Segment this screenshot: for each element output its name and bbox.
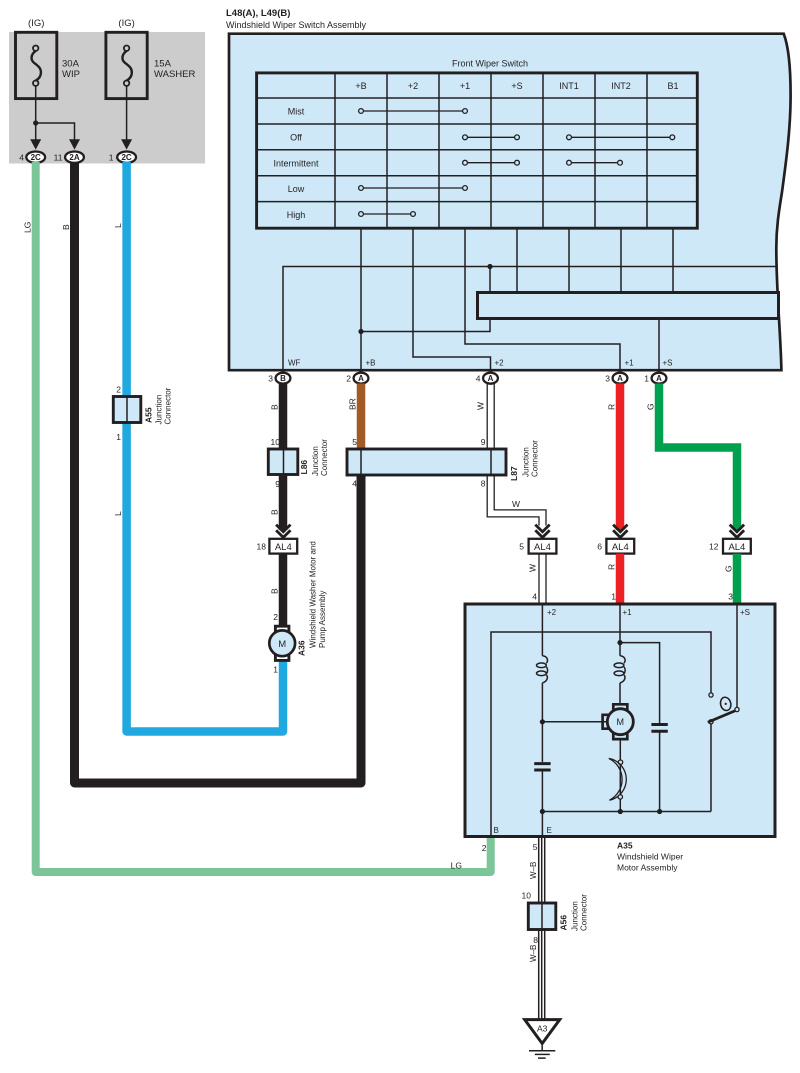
internal wire +1 column to terminal: [465, 229, 620, 370]
svg-text:+S: +S: [740, 608, 750, 617]
svg-text:+S: +S: [663, 359, 673, 368]
commutator contact top: [618, 760, 622, 764]
commutator crescent: [609, 758, 627, 800]
svg-text:Junction: Junction: [522, 447, 531, 477]
svg-text:4: 4: [352, 479, 357, 489]
wire G from AL4 to A35 terminal +S: [733, 554, 742, 604]
wire branch to 2A: [36, 123, 75, 140]
connector oval 2C pin1: [117, 152, 136, 163]
arrow chevrons into AL4 pin18: [276, 525, 290, 538]
link +B node to bus bar bottom: [361, 319, 490, 332]
terminal 2(A) +B: [354, 373, 369, 384]
wire R from terminal 3(A) to AL4 pin6: [616, 384, 625, 531]
internal wire +B column down to terminal: [360, 229, 362, 370]
svg-text:2A: 2A: [69, 153, 79, 162]
svg-text:A: A: [358, 374, 364, 383]
svg-text:1: 1: [644, 374, 649, 384]
A35 terminal labels: [494, 608, 751, 835]
parking switch contact from B: [709, 693, 713, 697]
table column headers: [355, 81, 678, 91]
svg-text:WASHER: WASHER: [154, 69, 195, 80]
wire E terminal: [541, 812, 543, 836]
svg-text:AL4: AL4: [612, 542, 629, 553]
svg-text:Junction: Junction: [311, 446, 320, 476]
svg-text:Pump Assembly: Pump Assembly: [318, 591, 327, 648]
A35 internal wire +S down to switch: [736, 604, 738, 708]
svg-text:BR: BR: [347, 398, 357, 410]
wire G from terminal 1(A) to AL4 pin12: [659, 384, 737, 531]
wire coil to motor top: [619, 683, 621, 704]
svg-text:10: 10: [522, 891, 532, 901]
svg-text:L86: L86: [299, 460, 309, 475]
capacitor C2: [651, 725, 667, 732]
svg-text:Windshield Washer Motor and: Windshield Washer Motor and: [309, 541, 318, 648]
wire motor bottom to commutator: [619, 739, 621, 811]
svg-text:+1: +1: [460, 81, 470, 91]
connector oval 2C pin4: [26, 152, 45, 163]
svg-text:3: 3: [728, 592, 733, 602]
svg-text:Intermittent: Intermittent: [273, 158, 319, 168]
arrow into connector 2C pin4: [30, 139, 41, 149]
connector AL4 pin18: [269, 539, 297, 554]
terminal 3(B) WF: [276, 373, 291, 384]
fuse F1 element (S-curve with end circles): [32, 46, 41, 86]
wire B from L86 to AL4: [279, 475, 288, 531]
svg-text:High: High: [287, 210, 306, 220]
svg-text:+2: +2: [408, 81, 418, 91]
wire LG (light green) from 2C pin4 to A35 terminal B: [36, 162, 491, 872]
wire W from AL4 to A35 terminal +2: [539, 554, 546, 604]
svg-text:2: 2: [116, 385, 121, 395]
wire junction to motor left brush: [542, 721, 606, 723]
wiper motor M: [603, 704, 634, 739]
wire L (blue) from 2C pin1 to washer motor A36: [127, 162, 283, 732]
A35 internal wire +2 down: [541, 604, 543, 656]
svg-text:+2: +2: [547, 608, 557, 617]
svg-text:W: W: [527, 564, 537, 572]
arrow chevrons into AL4 pin5: [535, 525, 549, 538]
internal wire bus to +S terminal: [658, 319, 660, 370]
svg-text:1: 1: [109, 153, 114, 163]
svg-text:30A: 30A: [62, 59, 80, 70]
arrow into connector 2A pin11: [69, 139, 80, 149]
svg-text:+1: +1: [625, 359, 635, 368]
svg-text:Connector: Connector: [320, 439, 329, 476]
svg-text:Front Wiper Switch: Front Wiper Switch: [452, 59, 528, 69]
svg-text:INT1: INT1: [559, 81, 579, 91]
svg-text:AL4: AL4: [534, 542, 551, 553]
wire BR from terminal 2(A) to L87: [357, 384, 366, 450]
switch logic table grid: [257, 73, 698, 228]
fuse F1 30A WIP body: [16, 32, 57, 98]
rail node capacitor: [657, 809, 662, 814]
A35 internal wire coil to junction: [541, 683, 543, 723]
internal wire WF: terminal up and across to torn edge: [283, 267, 776, 370]
svg-text:4: 4: [532, 592, 537, 602]
wiper motor assembly A35 box: [465, 604, 775, 837]
svg-text:A35: A35: [617, 841, 633, 851]
junction node on +1: [617, 640, 622, 645]
svg-text:AL4: AL4: [728, 542, 745, 553]
stub from WF node to bus bar: [489, 267, 491, 293]
svg-text:AL4: AL4: [275, 542, 292, 553]
switch contacts row Low (+B to +1): [359, 186, 468, 191]
svg-text:+1: +1: [623, 608, 633, 617]
internal wire +S column down to bus: [516, 229, 518, 292]
svg-text:A: A: [656, 374, 662, 383]
svg-text:2: 2: [482, 843, 487, 853]
A35 internal wire from B up and across to parking switch: [491, 632, 711, 836]
svg-text:INT2: INT2: [611, 81, 631, 91]
rail node motor: [618, 809, 623, 814]
svg-text:1: 1: [611, 592, 616, 602]
wire B (black) from 2A pin11 to L87 pin4: [75, 162, 362, 783]
svg-text:+S: +S: [511, 81, 522, 91]
ground point A3 triangle: [525, 1020, 560, 1044]
svg-text:Junction: Junction: [571, 901, 580, 931]
svg-text:R: R: [606, 564, 616, 570]
junction node on WF wire: [487, 264, 492, 269]
svg-text:2C: 2C: [31, 153, 41, 162]
svg-text:8: 8: [481, 479, 486, 489]
wiper switch assembly box (torn right edge): [229, 34, 791, 371]
connector oval 2A pin11: [65, 152, 84, 163]
svg-text:B: B: [280, 374, 286, 383]
svg-text:3: 3: [605, 374, 610, 384]
svg-text:L: L: [113, 511, 123, 516]
ground symbol: [529, 1044, 555, 1059]
svg-text:WIP: WIP: [62, 69, 80, 80]
svg-text:(IG): (IG): [28, 18, 44, 29]
svg-text:M: M: [278, 639, 286, 650]
wire from fuse F1 down: [35, 86, 37, 140]
junction node below fuse F1: [33, 120, 38, 125]
A35 internal wire +1 down: [619, 604, 621, 644]
arrow into connector 2C pin1: [121, 139, 132, 149]
coil (high speed winding) on +1: [614, 643, 625, 683]
svg-text:1: 1: [116, 432, 121, 442]
wire B from AL4 to washer motor A36: [279, 554, 288, 627]
branch +1 node to capacitor C2: [620, 643, 660, 725]
connector AL4 pin12: [723, 539, 751, 554]
svg-text:B: B: [269, 588, 279, 594]
terminal 1(A) +S: [652, 373, 667, 384]
svg-text:A55: A55: [144, 407, 154, 423]
junction connector L86: [268, 437, 329, 489]
svg-text:R: R: [606, 404, 616, 410]
switch contacts row High (+B to +2): [359, 212, 416, 217]
parking switch pivot contact: [709, 720, 713, 724]
wire junction down to capacitor: [541, 722, 543, 762]
svg-text:W: W: [512, 499, 520, 509]
junction node at motor left: [540, 719, 545, 724]
svg-text:A36: A36: [297, 640, 307, 656]
svg-text:6: 6: [597, 542, 602, 552]
terminal 4(A) +2: [483, 373, 498, 384]
svg-text:W: W: [476, 402, 486, 410]
svg-text:Connector: Connector: [580, 894, 589, 931]
svg-text:Windshield Wiper Switch Assemb: Windshield Wiper Switch Assembly: [226, 20, 367, 30]
svg-text:1: 1: [273, 665, 278, 675]
svg-text:Connector: Connector: [531, 440, 540, 477]
terminal 3(A) +1: [613, 373, 628, 384]
wire R from AL4 to A35 terminal +1: [616, 554, 625, 604]
svg-text:Junction: Junction: [155, 395, 164, 425]
svg-text:5: 5: [352, 437, 357, 447]
svg-text:9: 9: [481, 437, 486, 447]
arrow chevrons into AL4 pin12: [730, 525, 744, 538]
fuse block gray panel: [9, 32, 205, 164]
internal wire +2 column to terminal: [413, 229, 491, 370]
svg-text:18: 18: [257, 542, 267, 552]
internal wire B1 column down to bus: [672, 229, 674, 292]
svg-text:LG: LG: [23, 222, 33, 233]
junction connector A55 on wire L: [113, 385, 172, 443]
washer motor A36 (motor and pump assembly): [269, 541, 327, 674]
svg-text:M: M: [617, 717, 625, 727]
svg-text:4: 4: [476, 374, 481, 384]
svg-text:A56: A56: [559, 915, 569, 931]
coil (low speed winding) on +2: [537, 656, 548, 683]
svg-text:Mist: Mist: [288, 106, 305, 116]
svg-text:8: 8: [533, 935, 538, 945]
wire W-B from A56 to ground A3: [539, 930, 545, 1020]
connector AL4 pin5: [529, 539, 557, 554]
svg-text:11: 11: [54, 153, 63, 163]
svg-text:+B: +B: [366, 359, 376, 368]
svg-text:(IG): (IG): [118, 18, 134, 29]
svg-text:A3: A3: [537, 1024, 548, 1034]
svg-text:10: 10: [271, 437, 281, 447]
svg-text:+2: +2: [495, 359, 505, 368]
parking switch cam: [719, 696, 732, 711]
svg-text:Off: Off: [290, 133, 302, 143]
connector AL4 pin6: [606, 539, 634, 554]
junction node on +B wire: [358, 329, 363, 334]
parking switch contact to +S: [735, 707, 739, 711]
commutator contact bottom: [618, 795, 622, 799]
rail node E: [540, 809, 545, 814]
svg-text:B: B: [269, 404, 279, 410]
svg-text:2: 2: [346, 374, 351, 384]
svg-text:LG: LG: [451, 861, 462, 871]
svg-text:Low: Low: [288, 184, 305, 194]
svg-text:L48(A), L49(B): L48(A), L49(B): [226, 8, 290, 19]
svg-text:WF: WF: [288, 359, 301, 368]
wire W (white) from terminal 4(A) through L87 to AL4 pin5: [487, 384, 546, 526]
terminal name labels inside box: [288, 359, 673, 368]
svg-text:A: A: [617, 374, 623, 383]
svg-text:A: A: [488, 374, 494, 383]
svg-text:W–B: W–B: [529, 862, 538, 879]
svg-text:G: G: [645, 403, 655, 410]
parking switch lever: [708, 710, 738, 723]
svg-text:2C: 2C: [121, 153, 131, 162]
svg-text:B: B: [269, 509, 279, 515]
svg-text:W–B: W–B: [529, 945, 538, 962]
svg-text:B1: B1: [667, 81, 678, 91]
svg-text:5: 5: [533, 842, 538, 852]
wire rail up to switch pivot: [710, 724, 712, 812]
fuse F2 15A WASHER body: [106, 32, 147, 98]
internal bus bar: [478, 293, 779, 319]
switch contacts row Mist (+B to +1): [359, 109, 468, 114]
internal wire INT2 column down to bus: [620, 229, 622, 292]
A35 ground rail: [542, 811, 711, 813]
junction connector L87 (wide): [347, 437, 540, 489]
svg-text:Motor Assembly: Motor Assembly: [617, 863, 678, 873]
svg-text:5: 5: [519, 542, 524, 552]
svg-text:L87: L87: [509, 466, 519, 481]
svg-text:15A: 15A: [154, 59, 172, 70]
svg-text:Windshield Wiper: Windshield Wiper: [617, 852, 683, 862]
svg-text:G: G: [723, 565, 733, 572]
svg-text:12: 12: [709, 542, 719, 552]
svg-text:E: E: [547, 826, 552, 835]
wire from fuse F2 down: [126, 86, 128, 140]
wire W-B from E to A56: [539, 836, 545, 903]
svg-text:2: 2: [273, 612, 278, 622]
capacitor C1: [534, 764, 550, 770]
internal wire INT1 column down to bus: [568, 229, 570, 292]
table row labels: [273, 106, 319, 220]
fuse F2 element (S-curve with end circles): [122, 46, 131, 86]
svg-text:+B: +B: [355, 81, 366, 91]
svg-text:4: 4: [19, 153, 24, 163]
switch contacts row Off (+1 to +S, INT1 to B1): [463, 135, 675, 140]
wire capacitor to ground rail: [541, 770, 543, 812]
wire capacitor C2 to ground rail: [659, 731, 661, 811]
svg-text:Connector: Connector: [164, 387, 173, 424]
svg-text:B: B: [494, 826, 499, 835]
svg-text:B: B: [61, 224, 71, 230]
switch contacts row Intermittent (+1 to +S, INT1 to INT2): [463, 160, 623, 165]
arrow chevrons into AL4 pin6: [613, 525, 627, 538]
svg-text:3: 3: [268, 374, 273, 384]
wire B from terminal 3(B) to L86: [279, 384, 288, 450]
svg-text:L: L: [113, 223, 123, 228]
junction connector A56: [522, 891, 589, 946]
